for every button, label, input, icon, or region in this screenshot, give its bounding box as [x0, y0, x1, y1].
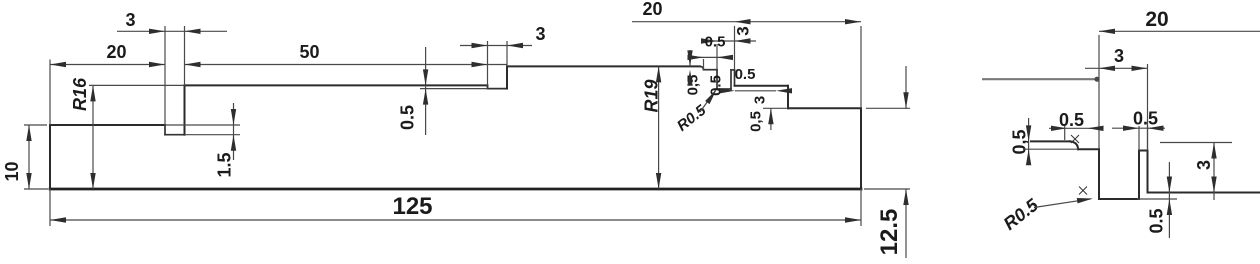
- detail tab top: [1139, 150, 1148, 152]
- arrow up at ledge level: [1026, 149, 1031, 165]
- cluster ledge dim line: [688, 56, 733, 58]
- arrow right at notch1 left wall: [149, 62, 165, 67]
- arrow down at axis: [656, 173, 661, 189]
- detail tab right wall: [1147, 151, 1149, 193]
- extension line detail tab outer wall up: [1147, 64, 1149, 151]
- notch 1 bottom: [165, 134, 185, 136]
- svg-text:0.5: 0.5: [708, 75, 725, 96]
- extension line R16 surface to left: [89, 84, 185, 86]
- cluster step fillet R0.5: [700, 66, 704, 69]
- detail tab left wall: [1138, 151, 1140, 200]
- svg-text:3: 3: [1194, 160, 1214, 170]
- main view profile : right edge: [860, 108, 862, 189]
- svg-text:3: 3: [535, 24, 545, 44]
- detail dimension 0.5 left line: [1049, 127, 1099, 129]
- arrow left at notch1 right wall: [185, 29, 201, 34]
- svg-text:R19: R19: [642, 79, 662, 112]
- arrow up at notch bottom level: [1167, 199, 1172, 215]
- arrow up at bottom: [903, 189, 908, 205]
- extension line detail notch left wall up: [1098, 35, 1100, 149]
- svg-text:0.5: 0.5: [1059, 110, 1084, 130]
- extension line top-left surface to right: [165, 124, 240, 126]
- arrow left at part left edge: [50, 62, 66, 67]
- arrow right at x861: [845, 217, 861, 222]
- extension line left edge up: [49, 60, 51, 126]
- svg-text:0.5: 0.5: [398, 105, 418, 130]
- arrow down at surface: [1026, 125, 1031, 141]
- arrow down at right surface: [1211, 177, 1216, 193]
- cluster notch left wall: [716, 70, 718, 89]
- extension line top-right surface to right: [866, 107, 910, 109]
- extension line top-left surface to left: [24, 124, 47, 126]
- dimension 125 line: [50, 219, 861, 221]
- arrow left at tab wall: [735, 19, 751, 24]
- dimension 50 line: [185, 64, 508, 66]
- extension line tab wall up: [734, 26, 736, 70]
- arrow right at notch1 left wall: [149, 29, 165, 34]
- cluster tab right wall: [734, 70, 736, 86]
- extension line 12.5 surface to left: [763, 107, 788, 109]
- step wall down to 12.5 surface: [787, 86, 789, 109]
- svg-text:0.5: 0.5: [1147, 208, 1167, 233]
- svg-text:3: 3: [752, 96, 769, 104]
- arrow down at right surface: [1167, 177, 1172, 193]
- svg-text:12.5: 12.5: [876, 209, 903, 256]
- dimension 20 (top right) line: [632, 21, 861, 23]
- arrow right at ledge start: [1051, 126, 1067, 131]
- main view profile : top-left surface (R16-area top, h=10): [50, 124, 165, 126]
- svg-text:R16: R16: [70, 77, 90, 111]
- extension line notch2 bottom to left: [420, 88, 488, 90]
- arrow left at notch wall: [1088, 126, 1104, 131]
- arrow up at surface level: [1211, 143, 1216, 159]
- arrow left at notch wall: [1099, 29, 1115, 34]
- radius R19 leader line: [658, 66, 660, 189]
- main view profile : bottom edge: [50, 188, 861, 191]
- svg-text:10: 10: [2, 161, 22, 181]
- cluster tab top: [731, 69, 735, 71]
- cluster tab left wall: [730, 70, 732, 89]
- arrow left at x1099: [1099, 66, 1115, 71]
- cluster step dim arrow: [770, 108, 772, 130]
- star mark at corner fillet: [1079, 187, 1087, 195]
- svg-text:1.5: 1.5: [215, 152, 235, 177]
- arrow down at R16 surface: [423, 69, 428, 85]
- extension lines tab walls up: [1138, 126, 1140, 151]
- extension line notch1 left wall up: [164, 26, 166, 125]
- detail notch bottom: [1099, 198, 1139, 200]
- arrow right at ledge start: [688, 55, 704, 60]
- detail ledge: [1078, 148, 1099, 150]
- detail right surface: [1148, 192, 1260, 194]
- surface right of cluster: [735, 85, 789, 87]
- extension line bottom to right: [864, 188, 910, 190]
- dimension 10 (left height) vertical line: [28, 125, 30, 189]
- dimension 3 (notch1 width) line: [117, 30, 227, 32]
- svg-text:0.5: 0.5: [1133, 109, 1158, 129]
- svg-text:0,5: 0,5: [1010, 129, 1030, 154]
- extension line bottom to left: [24, 188, 48, 190]
- extension line right edge down: [860, 189, 862, 226]
- detail dimension 0.5 right line: [1112, 127, 1165, 129]
- dimension 12.5 (right height) upper segment: [905, 66, 907, 109]
- detail view profile : left surface: [1031, 140, 1070, 142]
- arrow down: [26, 173, 31, 189]
- R19 surface: [507, 65, 700, 67]
- detail dimension 0.5 bottom right vertical: [1168, 162, 1170, 238]
- arrow right at notch2 left wall: [472, 43, 488, 48]
- svg-text:20: 20: [642, 0, 662, 19]
- arrow left at tab right wall: [1148, 126, 1164, 131]
- detail R0.5 leader: [1034, 199, 1091, 208]
- radius R16 leader line: [92, 85, 94, 189]
- main view profile : left edge: [49, 125, 51, 189]
- svg-text:0,5: 0,5: [685, 75, 702, 96]
- detail step fillet R0.5: [1070, 141, 1078, 149]
- extension line left edge down: [49, 189, 51, 226]
- arrow left at tab wall: [735, 38, 751, 43]
- detail dimension 3 line: [1085, 67, 1148, 69]
- extension line notch1 bottom to right: [185, 134, 241, 136]
- dimension 3 (notch2 width) line: [460, 45, 532, 47]
- cluster ledge: [704, 69, 718, 71]
- arrow right at tab left wall: [1123, 126, 1139, 131]
- svg-text:0,5: 0,5: [748, 111, 765, 132]
- cluster R0.5 leader: [700, 91, 716, 113]
- svg-text:125: 125: [392, 193, 432, 220]
- arrow up at notch2 bottom: [423, 89, 428, 105]
- svg-text:3: 3: [734, 26, 753, 35]
- extension line ledge level to left: [1023, 148, 1078, 150]
- detail view : grey connection line: [982, 78, 1097, 80]
- cluster notch width dim line: [704, 40, 756, 42]
- detail notch left wall: [1098, 149, 1100, 199]
- svg-text:3: 3: [1114, 46, 1124, 66]
- svg-text:0.5: 0.5: [705, 34, 726, 51]
- svg-text:0.5: 0.5: [735, 66, 756, 83]
- dimension 0.5 (notch2 depth) vertical line: [425, 47, 427, 135]
- R16 surface: [185, 84, 488, 86]
- extension line right edge up: [860, 26, 862, 108]
- arrow left at notch left wall: [717, 55, 733, 60]
- extension line notch1 right wall up: [184, 26, 186, 85]
- arrow left at x50: [50, 217, 66, 222]
- arrow down at top-right surface: [903, 92, 908, 108]
- cluster left step dim arrows: [689, 50, 691, 66]
- extension line notch bottom to right: [1137, 198, 1177, 200]
- arrow up at R19 surface: [656, 66, 661, 82]
- arrow left at x184.5: [185, 62, 201, 67]
- detail dimension 3 right vertical: [1213, 143, 1215, 201]
- arrow right at x1147.5: [1132, 66, 1148, 71]
- notch 2 (3 wide x 0.5 deep) left wall: [487, 85, 489, 88]
- cluster tab small arrows: [719, 88, 735, 93]
- dimension 1.5 (notch1 depth) vertical line: [233, 103, 235, 160]
- svg-text:50: 50: [299, 42, 319, 62]
- extension line surface level across: [1160, 142, 1232, 144]
- detail dimension 20 line: [1099, 30, 1260, 32]
- notch 2 right wall up to R19 surface: [506, 66, 508, 88]
- arrow up: [26, 125, 31, 141]
- svg-text:20: 20: [1145, 8, 1168, 31]
- notch 2 bottom: [488, 88, 508, 90]
- cluster notch bottom: [717, 88, 731, 90]
- extension line notch2 right wall up: [506, 41, 508, 66]
- arrow up at R16 surface: [90, 85, 95, 101]
- arrow down at top-left surface level: [231, 109, 236, 125]
- arrow left at notch2 right wall: [507, 43, 523, 48]
- svg-text:20: 20: [106, 42, 126, 62]
- detail dimension 0.5 far left vertical: [1028, 118, 1030, 163]
- svg-text:3: 3: [125, 10, 135, 30]
- extension line short: [1064, 126, 1066, 140]
- arrow up at notch1 bottom: [231, 135, 236, 151]
- extension line ledge start up: [703, 59, 705, 70]
- extension line notch2 left wall up: [487, 41, 489, 85]
- star mark at step fillet: [1071, 135, 1079, 143]
- arrow right at cluster notch left wall: [701, 38, 717, 43]
- extension line cluster left wall up: [716, 44, 718, 70]
- arrow right at x507: [472, 62, 488, 67]
- dimension 12.5 lower segment: [905, 189, 907, 258]
- arrow down at axis: [90, 173, 95, 189]
- top-right surface (h=12.5): [788, 107, 861, 109]
- dimension 20 (left) line: [50, 64, 165, 66]
- step wall up to R16 surface: [184, 85, 186, 134]
- arrow right at right edge: [845, 19, 861, 24]
- notch 1 (3 wide x 1.5 deep) left wall: [164, 125, 166, 135]
